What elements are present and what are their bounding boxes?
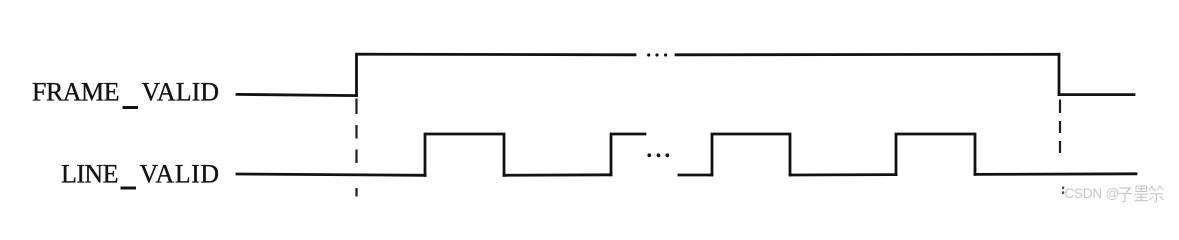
watermark glyph zi [1118, 188, 1133, 202]
wire LINE_VALID pulse 3 [896, 134, 975, 175]
wire LINE_VALID low segment 5 [975, 172, 1136, 175]
wire FRAME_VALID low segment right [1059, 93, 1134, 96]
wire FRAME_VALID falling edge [1058, 54, 1061, 94]
svg-text:LINE: LINE [61, 160, 119, 189]
continuation dots on LINE_VALID (mid level) [647, 153, 669, 157]
wire FRAME_VALID high segment (right of break) [676, 53, 1059, 56]
wire LINE_VALID low segment 4 [790, 173, 896, 176]
wire LINE_VALID low segment 3 (after break) [679, 174, 712, 177]
signal label LINE_VALID [61, 160, 219, 190]
watermark CSDN @ [1065, 186, 1120, 201]
wire LINE_VALID pulse 2 [712, 134, 790, 175]
wire LINE_VALID low segment 2 [504, 173, 611, 176]
dashed marker at frame start (x=357) [355, 99, 357, 197]
dashed marker at frame end (x=1060) [1059, 100, 1061, 154]
svg-text:CSDN @: CSDN @ [1065, 186, 1120, 201]
svg-text:VALID: VALID [142, 78, 220, 107]
watermark glyph mo [1135, 186, 1149, 201]
wire LINE_VALID low segment 1 [237, 174, 425, 175]
wire FRAME_VALID rising edge and high segment (left of break) [357, 54, 636, 95]
continuation dots on FRAME_VALID high line [647, 53, 667, 56]
signal label FRAME_VALID [32, 78, 219, 110]
wire LINE_VALID rising edge before break [611, 134, 645, 175]
dashed marker remnant dots below LINE_VALID wire [1062, 187, 1064, 194]
svg-text:VALID: VALID [140, 160, 220, 189]
watermark glyph ji [1149, 186, 1164, 203]
wire LINE_VALID pulse 1 [425, 134, 504, 175]
wire FRAME_VALID low segment left [237, 94, 357, 95]
svg-text:FRAME: FRAME [32, 78, 120, 107]
